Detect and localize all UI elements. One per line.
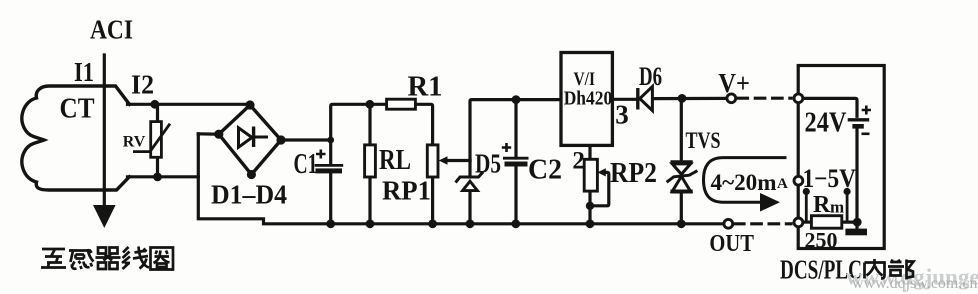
svg-text:2: 2	[572, 148, 585, 175]
svg-text:RP2: RP2	[610, 158, 657, 189]
svg-text:D1–D4: D1–D4	[211, 180, 287, 210]
svg-text:Dh420: Dh420	[564, 88, 613, 109]
svg-text:CT: CT	[60, 93, 95, 125]
svg-text:C2: C2	[528, 154, 562, 186]
svg-text:24V: 24V	[805, 107, 847, 138]
svg-text:OUT: OUT	[709, 231, 754, 257]
svg-text:D6: D6	[639, 62, 662, 91]
svg-text:TVS: TVS	[686, 128, 721, 153]
svg-text:250: 250	[805, 228, 838, 253]
svg-text:RL: RL	[379, 145, 411, 176]
svg-text:I1: I1	[74, 57, 94, 87]
svg-text:C1: C1	[294, 149, 318, 180]
svg-text:I2: I2	[131, 70, 154, 100]
svg-text:A: A	[777, 176, 788, 192]
svg-text:1−5V: 1−5V	[803, 164, 857, 193]
svg-text:m: m	[830, 198, 844, 217]
svg-text:D5: D5	[475, 149, 501, 179]
svg-text:www.dqjsw.com.cn: www.dqjsw.com.cn	[852, 275, 977, 292]
svg-text:V+: V+	[718, 68, 750, 98]
svg-text:4~20m: 4~20m	[711, 170, 777, 195]
svg-text:R1: R1	[408, 72, 443, 103]
svg-text:RP1: RP1	[382, 176, 431, 206]
svg-text:RV: RV	[123, 134, 146, 151]
svg-text:3: 3	[615, 100, 629, 130]
svg-text:ACI: ACI	[90, 15, 133, 45]
svg-text:V/I: V/I	[574, 69, 596, 90]
svg-text:R: R	[813, 192, 831, 218]
